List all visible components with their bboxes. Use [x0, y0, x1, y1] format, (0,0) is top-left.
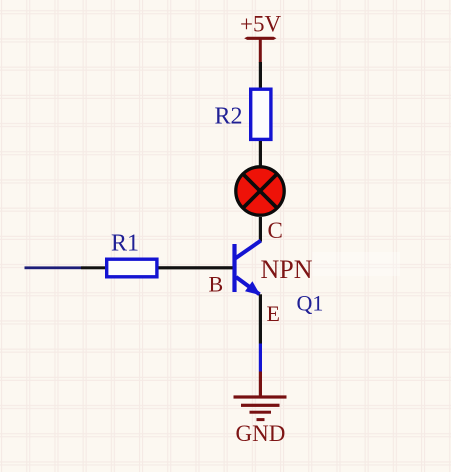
resistor R1 — [107, 259, 157, 277]
resistor R2 — [251, 89, 271, 139]
wire segment to ground (dark red) — [259, 372, 262, 397]
transistor Q1 emitter arrow — [245, 281, 260, 295]
svg-text:C: C — [268, 218, 283, 243]
wire +5V stem (dark red) — [259, 38, 262, 63]
wire base input to R1 (black) — [81, 266, 106, 269]
svg-text:R2: R2 — [215, 104, 243, 130]
power +5V bar symbol — [244, 37, 276, 40]
svg-text:Q1: Q1 — [297, 291, 324, 316]
wire lamp to collector (black) — [259, 217, 262, 242]
wire from +5V to R2 (black) — [259, 62, 262, 88]
svg-text:GND: GND — [236, 421, 286, 446]
svg-text:B: B — [209, 272, 224, 297]
svg-text:+5V: +5V — [240, 12, 281, 37]
lamp DS1 — [236, 167, 284, 215]
wire R2 to lamp (black) — [259, 141, 262, 167]
transistor Q1 emitter line — [236, 277, 260, 294]
wire emitter down (black) — [259, 294, 262, 343]
transistor Q1 collector line — [236, 241, 261, 259]
ground symbol — [234, 395, 287, 421]
wire R1 to base (black) — [159, 266, 233, 269]
wire segment (blue) — [259, 344, 262, 372]
wire base input left segment (navy pin) — [25, 266, 82, 269]
transistor Q1 base bar — [232, 244, 236, 292]
svg-text:R1: R1 — [111, 231, 139, 257]
svg-text:E: E — [267, 301, 280, 326]
svg-text:NPN: NPN — [261, 255, 313, 284]
